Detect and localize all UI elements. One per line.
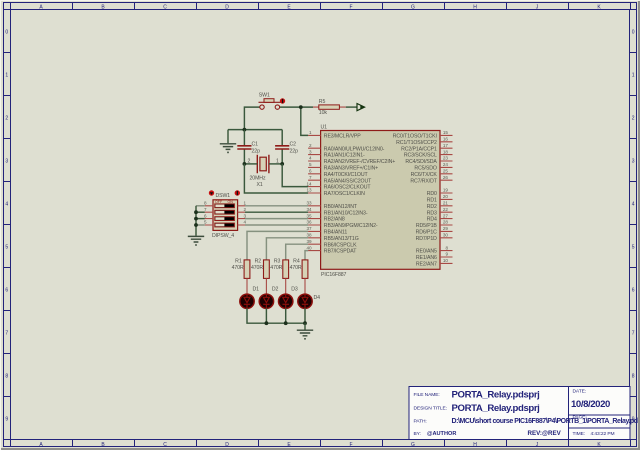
svg-text:D3: D3 xyxy=(291,287,298,293)
wire X1 left to C1 node xyxy=(244,163,257,165)
svg-text:RD6/P1C: RD6/P1C xyxy=(416,230,438,236)
title block design title row xyxy=(414,403,541,414)
svg-text:10k: 10k xyxy=(319,110,328,116)
svg-text:G: G xyxy=(411,442,415,448)
node junction at SW1/R5/MCLR xyxy=(299,105,303,109)
svg-text:9: 9 xyxy=(445,252,448,257)
svg-text:RD0: RD0 xyxy=(427,191,437,197)
svg-text:7: 7 xyxy=(5,331,8,337)
svg-text:RD1: RD1 xyxy=(427,198,437,204)
wire down to left ground xyxy=(227,130,229,144)
svg-text:19: 19 xyxy=(443,188,449,193)
title block by/rev row xyxy=(414,430,562,437)
svg-text:TIME:: TIME: xyxy=(573,431,586,437)
svg-text:U1: U1 xyxy=(321,125,328,131)
DSW1 right pin numbers xyxy=(244,201,247,225)
DSW1 right pin stubs xyxy=(238,206,245,225)
svg-text:1: 1 xyxy=(5,73,8,79)
svg-text:39: 39 xyxy=(306,239,312,244)
wire RB5 to R2 xyxy=(266,238,308,260)
node junction X1 pin1 xyxy=(280,162,284,166)
svg-text:R3: R3 xyxy=(274,259,281,265)
DSW1 slider 1 xyxy=(215,204,235,208)
DSW1 left pin stubs xyxy=(205,206,213,225)
svg-text:REV:@REV: REV:@REV xyxy=(528,430,562,437)
LED D3 xyxy=(279,294,293,308)
title block time xyxy=(573,431,615,437)
LED D4 xyxy=(298,294,312,308)
svg-text:29: 29 xyxy=(443,226,449,231)
node junction X1 pin2 xyxy=(243,162,247,166)
svg-text:RC4/SDI/SDA: RC4/SDI/SDA xyxy=(405,159,437,165)
svg-text:4:43:22 PM: 4:43:22 PM xyxy=(591,431,615,437)
svg-text:35: 35 xyxy=(306,213,312,218)
svg-text:6: 6 xyxy=(632,288,635,294)
svg-text:5: 5 xyxy=(309,162,312,167)
svg-text:RB5/AN13/T1G: RB5/AN13/T1G xyxy=(324,236,359,242)
wire DSW1 left pin row 4 to ground bus xyxy=(196,224,205,226)
wire DSW1 pin 1 to RB0 xyxy=(245,205,308,207)
svg-text:9: 9 xyxy=(5,417,8,423)
svg-text:5: 5 xyxy=(632,245,635,251)
svg-text:30: 30 xyxy=(443,233,449,238)
svg-text:22p: 22p xyxy=(252,149,261,155)
wire R4 to D4 xyxy=(304,278,306,294)
wire DSW1 left pin row 3 to ground bus xyxy=(196,218,205,220)
svg-text:2: 2 xyxy=(5,116,8,122)
svg-text:@AUTHOR: @AUTHOR xyxy=(427,431,456,437)
svg-text:PATH:: PATH: xyxy=(414,419,427,425)
svg-text:17: 17 xyxy=(443,143,449,148)
U1 right pin stubs xyxy=(440,135,453,263)
wire LED down to bus x=305.0 xyxy=(304,308,306,323)
svg-text:RE0/AN5: RE0/AN5 xyxy=(416,249,437,255)
wire R3 to D3 xyxy=(285,278,287,294)
title block file name row xyxy=(414,389,541,400)
U1 right pin numbers xyxy=(443,130,449,263)
svg-text:RC6/TX/CK: RC6/TX/CK xyxy=(411,172,438,178)
wire DSW1 left pin row 2 to ground bus xyxy=(196,211,205,213)
capacitor C1 xyxy=(237,130,251,164)
svg-text:15: 15 xyxy=(443,130,449,135)
svg-text:28: 28 xyxy=(443,220,449,225)
wire DSW1 pin 3 to RB2 xyxy=(245,218,308,220)
U1 left pin stubs xyxy=(308,135,321,250)
svg-text:470R: 470R xyxy=(251,265,263,271)
svg-text:H: H xyxy=(473,4,477,10)
ruler column letters top xyxy=(39,4,601,10)
wire DSW1 ground bus vertical xyxy=(195,206,197,236)
svg-text:RB6/ICSPCLK: RB6/ICSPCLK xyxy=(324,242,357,248)
svg-text:20MHz: 20MHz xyxy=(250,175,266,181)
svg-text:6: 6 xyxy=(204,213,207,218)
wire R1 to D1 xyxy=(246,278,248,294)
svg-text:22: 22 xyxy=(443,207,449,212)
svg-text:6: 6 xyxy=(5,288,8,294)
ground (below DSW1) xyxy=(188,236,204,245)
svg-text:24: 24 xyxy=(443,162,449,167)
svg-text:8: 8 xyxy=(5,374,8,380)
svg-text:RC5/SDO: RC5/SDO xyxy=(414,166,436,172)
wire R2 to D2 xyxy=(265,278,267,294)
svg-text:DESIGN TITLE:: DESIGN TITLE: xyxy=(414,406,447,412)
svg-text:470R: 470R xyxy=(290,265,302,271)
svg-text:RC1/T1OSI/CCP2: RC1/T1OSI/CCP2 xyxy=(396,140,437,146)
svg-text:RD3: RD3 xyxy=(427,210,437,216)
svg-text:C1: C1 xyxy=(252,142,259,148)
node junction bus x=285.7 xyxy=(284,321,288,325)
DSW1 slider 2 xyxy=(215,210,235,214)
svg-text:RE3/MCLR/VPP: RE3/MCLR/VPP xyxy=(324,134,361,140)
svg-text:1: 1 xyxy=(309,130,312,135)
svg-text:20: 20 xyxy=(443,194,449,199)
resistor R1 xyxy=(244,260,250,279)
svg-text:F: F xyxy=(349,442,352,448)
svg-text:1: 1 xyxy=(244,201,247,206)
svg-text:470R: 470R xyxy=(232,265,244,271)
svg-text:R5: R5 xyxy=(319,99,326,105)
op-amp U1 body (PIC16F887 microcontroller) xyxy=(321,131,440,270)
svg-text:D4: D4 xyxy=(314,295,321,301)
LED D1 xyxy=(240,294,254,308)
svg-text:D: D xyxy=(225,4,229,10)
svg-text:0: 0 xyxy=(632,30,635,36)
title block path row xyxy=(414,418,639,425)
svg-text:F: F xyxy=(349,4,352,10)
title block frame xyxy=(409,387,630,440)
svg-text:DATE:: DATE: xyxy=(573,389,587,395)
svg-text:DIPSW_4: DIPSW_4 xyxy=(212,233,234,239)
svg-text:40: 40 xyxy=(306,245,312,250)
ground (below LEDs) xyxy=(297,330,313,339)
svg-text:RC7/RX/DT: RC7/RX/DT xyxy=(410,178,437,184)
svg-text:4: 4 xyxy=(309,156,312,161)
wire R5 to output terminal xyxy=(346,106,357,108)
svg-text:PORTA_Relay.pdsprj: PORTA_Relay.pdsprj xyxy=(452,389,541,400)
svg-text:3: 3 xyxy=(244,213,247,218)
wire C1/X1 to OSC1 pin 13 xyxy=(244,164,308,193)
svg-text:8: 8 xyxy=(445,245,448,250)
svg-text:D:\MCU\short course PIC16F887\: D:\MCU\short course PIC16F887\P4\PORTB_1… xyxy=(452,418,639,425)
svg-text:RA5/AN4/SS/C2OUT: RA5/AN4/SS/C2OUT xyxy=(324,178,372,184)
DSW1 slider 3 xyxy=(215,217,235,221)
svg-text:C: C xyxy=(163,442,167,448)
svg-text:R4: R4 xyxy=(293,259,300,265)
wire RB7 to R4 xyxy=(305,251,308,260)
svg-text:RA2/AN2/VREF-/CVREF/C2IN+: RA2/AN2/VREF-/CVREF/C2IN+ xyxy=(324,159,396,165)
node junction bus x=305.0 xyxy=(303,321,307,325)
node junction at C1 top xyxy=(243,128,247,132)
DSW1 slider 4 xyxy=(215,223,235,227)
svg-text:C2: C2 xyxy=(290,142,297,148)
node junction DSW1 bus 2 xyxy=(194,210,198,214)
svg-text:RB4/AN11: RB4/AN11 xyxy=(324,230,348,236)
svg-text:RC3/SCK/SCL: RC3/SCK/SCL xyxy=(404,153,437,159)
svg-text:H: H xyxy=(473,442,477,448)
svg-text:21: 21 xyxy=(443,201,449,206)
ruler row numbers right xyxy=(632,30,635,423)
ruler column letters bottom xyxy=(39,442,601,448)
svg-text:33: 33 xyxy=(306,201,312,206)
svg-text:0: 0 xyxy=(5,30,8,36)
svg-text:RA1/AN1/C12IN1-: RA1/AN1/C12IN1- xyxy=(324,153,365,159)
node junction bus x=266.4 xyxy=(265,321,269,325)
wire junction down to pin RE3/MCLR xyxy=(301,107,308,135)
svg-text:RB3/AN9/PGM/C12IN2-: RB3/AN9/PGM/C12IN2- xyxy=(324,223,378,229)
svg-text:1: 1 xyxy=(632,73,635,79)
svg-text:D1: D1 xyxy=(253,287,260,293)
svg-text:RA3/AN3/VREF+/C1IN+: RA3/AN3/VREF+/C1IN+ xyxy=(324,166,378,172)
svg-text:DSW1: DSW1 xyxy=(216,193,231,199)
svg-text:3: 3 xyxy=(309,149,312,154)
wire RB6 to R3 xyxy=(286,244,308,260)
svg-text:8: 8 xyxy=(204,201,207,206)
svg-text:3: 3 xyxy=(5,159,8,165)
wire bus to ground xyxy=(304,323,306,329)
svg-text:D: D xyxy=(225,442,229,448)
node junction DSW1 bus 3 xyxy=(194,217,198,221)
svg-text:16: 16 xyxy=(443,137,449,142)
svg-text:18: 18 xyxy=(443,149,449,154)
SW1 interactive toggle marker xyxy=(280,98,285,103)
DIP switch DSW1 body xyxy=(213,200,238,231)
DSW1 interactive marker left xyxy=(209,190,214,195)
svg-text:RD2: RD2 xyxy=(427,204,437,210)
svg-text:D2: D2 xyxy=(272,287,279,293)
svg-text:PIC16F887: PIC16F887 xyxy=(321,272,347,278)
svg-text:22p: 22p xyxy=(290,149,299,155)
U1 left pin numbers xyxy=(306,130,312,250)
svg-text:RE1/AN6: RE1/AN6 xyxy=(416,255,437,261)
svg-text:5: 5 xyxy=(204,220,207,225)
svg-text:8: 8 xyxy=(632,374,635,380)
svg-text:34: 34 xyxy=(306,207,312,212)
svg-text:2: 2 xyxy=(244,207,247,212)
U1 right pin names xyxy=(393,134,438,268)
svg-text:10/8/2020: 10/8/2020 xyxy=(571,399,611,410)
svg-text:27: 27 xyxy=(443,213,449,218)
svg-text:7: 7 xyxy=(204,207,207,212)
svg-text:G: G xyxy=(411,4,415,10)
svg-text:4: 4 xyxy=(632,202,635,208)
output terminal arrow xyxy=(357,104,365,111)
svg-text:13: 13 xyxy=(306,188,312,193)
wire LED down to bus x=285.7 xyxy=(285,308,287,323)
svg-text:RA6/OSC2/CLKOUT: RA6/OSC2/CLKOUT xyxy=(324,185,372,191)
svg-text:470R: 470R xyxy=(270,265,282,271)
resistor R2 xyxy=(264,260,270,279)
svg-text:3: 3 xyxy=(632,159,635,165)
svg-text:RE2/AN7: RE2/AN7 xyxy=(416,262,437,268)
svg-text:RB7/ICSPDAT: RB7/ICSPDAT xyxy=(324,249,357,255)
resistor R3 xyxy=(283,260,289,279)
wire SW1 right to junction and on to R5 xyxy=(280,106,313,108)
wire LED down to bus x=266.4 xyxy=(265,308,267,323)
svg-text:BY:: BY: xyxy=(414,431,421,437)
svg-text:RD7/P1D: RD7/P1D xyxy=(416,236,438,242)
wire DSW1 pin 4 to RB3 xyxy=(245,224,308,226)
svg-text:SW1: SW1 xyxy=(259,93,270,99)
wire X1 right to C2 node xyxy=(269,163,282,165)
svg-text:26: 26 xyxy=(443,175,449,180)
svg-text:2: 2 xyxy=(632,116,635,122)
crystal X1 xyxy=(257,155,269,173)
svg-text:RD5/P1B: RD5/P1B xyxy=(416,223,438,229)
resistor R4 xyxy=(302,260,308,279)
wire DSW1 left pin row 1 to ground bus xyxy=(196,205,205,207)
svg-text:38: 38 xyxy=(306,233,312,238)
wire RB4 to R1 xyxy=(247,231,308,260)
wire horizontal node row (gnd, C1, C2 tops) xyxy=(228,129,282,131)
svg-text:RB0/AN12/INT: RB0/AN12/INT xyxy=(324,204,358,210)
svg-text:RC0/T1OSO/T1CKI: RC0/T1OSO/T1CKI xyxy=(393,134,437,140)
capacitor C2 xyxy=(275,130,289,164)
svg-text:RB1/AN10/C12IN3-: RB1/AN10/C12IN3- xyxy=(324,210,368,216)
svg-text:5: 5 xyxy=(5,245,8,251)
title block date xyxy=(571,389,611,410)
U1 left pin names xyxy=(324,134,396,255)
svg-text:RA4/T0CKI/C1OUT: RA4/T0CKI/C1OUT xyxy=(324,172,369,178)
resistor R5 xyxy=(313,105,346,109)
svg-text:37: 37 xyxy=(306,226,312,231)
DSW1 interactive marker right xyxy=(235,190,240,195)
ruler row numbers left xyxy=(5,30,8,423)
svg-text:RA0/AN0/ULPWU/C12IN0-: RA0/AN0/ULPWU/C12IN0- xyxy=(324,146,385,152)
wire LED cathode bus xyxy=(247,308,305,323)
ground (left of C1) xyxy=(220,144,236,153)
svg-text:4: 4 xyxy=(244,220,247,225)
wire SW1 left to corner and down to C1 node xyxy=(244,107,259,130)
svg-text:RC2/P1A/CCP1: RC2/P1A/CCP1 xyxy=(401,146,437,152)
svg-text:RD4: RD4 xyxy=(427,217,437,223)
svg-text:14: 14 xyxy=(306,181,312,186)
switch SW1 xyxy=(259,99,282,110)
svg-text:RA7/OSC1/CLKIN: RA7/OSC1/CLKIN xyxy=(324,191,365,197)
svg-text:25: 25 xyxy=(443,169,449,174)
node junction DSW1 bus 4 xyxy=(194,223,198,227)
svg-text:X1: X1 xyxy=(257,182,263,188)
svg-text:2: 2 xyxy=(309,143,312,148)
DSW1 left pin numbers xyxy=(204,201,207,225)
svg-text:R1: R1 xyxy=(235,259,242,265)
svg-text:4: 4 xyxy=(5,202,8,208)
svg-text:7: 7 xyxy=(632,331,635,337)
svg-text:PORTA_Relay.pdsprj: PORTA_Relay.pdsprj xyxy=(452,403,541,414)
wire C2/X1 to OSC2 pin 14 xyxy=(282,164,308,187)
svg-text:36: 36 xyxy=(306,220,312,225)
wire DSW1 pin 2 to RB1 xyxy=(245,211,308,213)
svg-text:23: 23 xyxy=(443,156,449,161)
svg-text:6: 6 xyxy=(309,169,312,174)
svg-text:FILE NAME:: FILE NAME: xyxy=(414,392,440,398)
svg-text:RB2/AN8: RB2/AN8 xyxy=(324,217,345,223)
svg-text:C: C xyxy=(163,4,167,10)
svg-text:10: 10 xyxy=(443,258,449,263)
svg-text:7: 7 xyxy=(309,175,312,180)
svg-text:R2: R2 xyxy=(255,259,262,265)
LED D2 xyxy=(259,294,273,308)
